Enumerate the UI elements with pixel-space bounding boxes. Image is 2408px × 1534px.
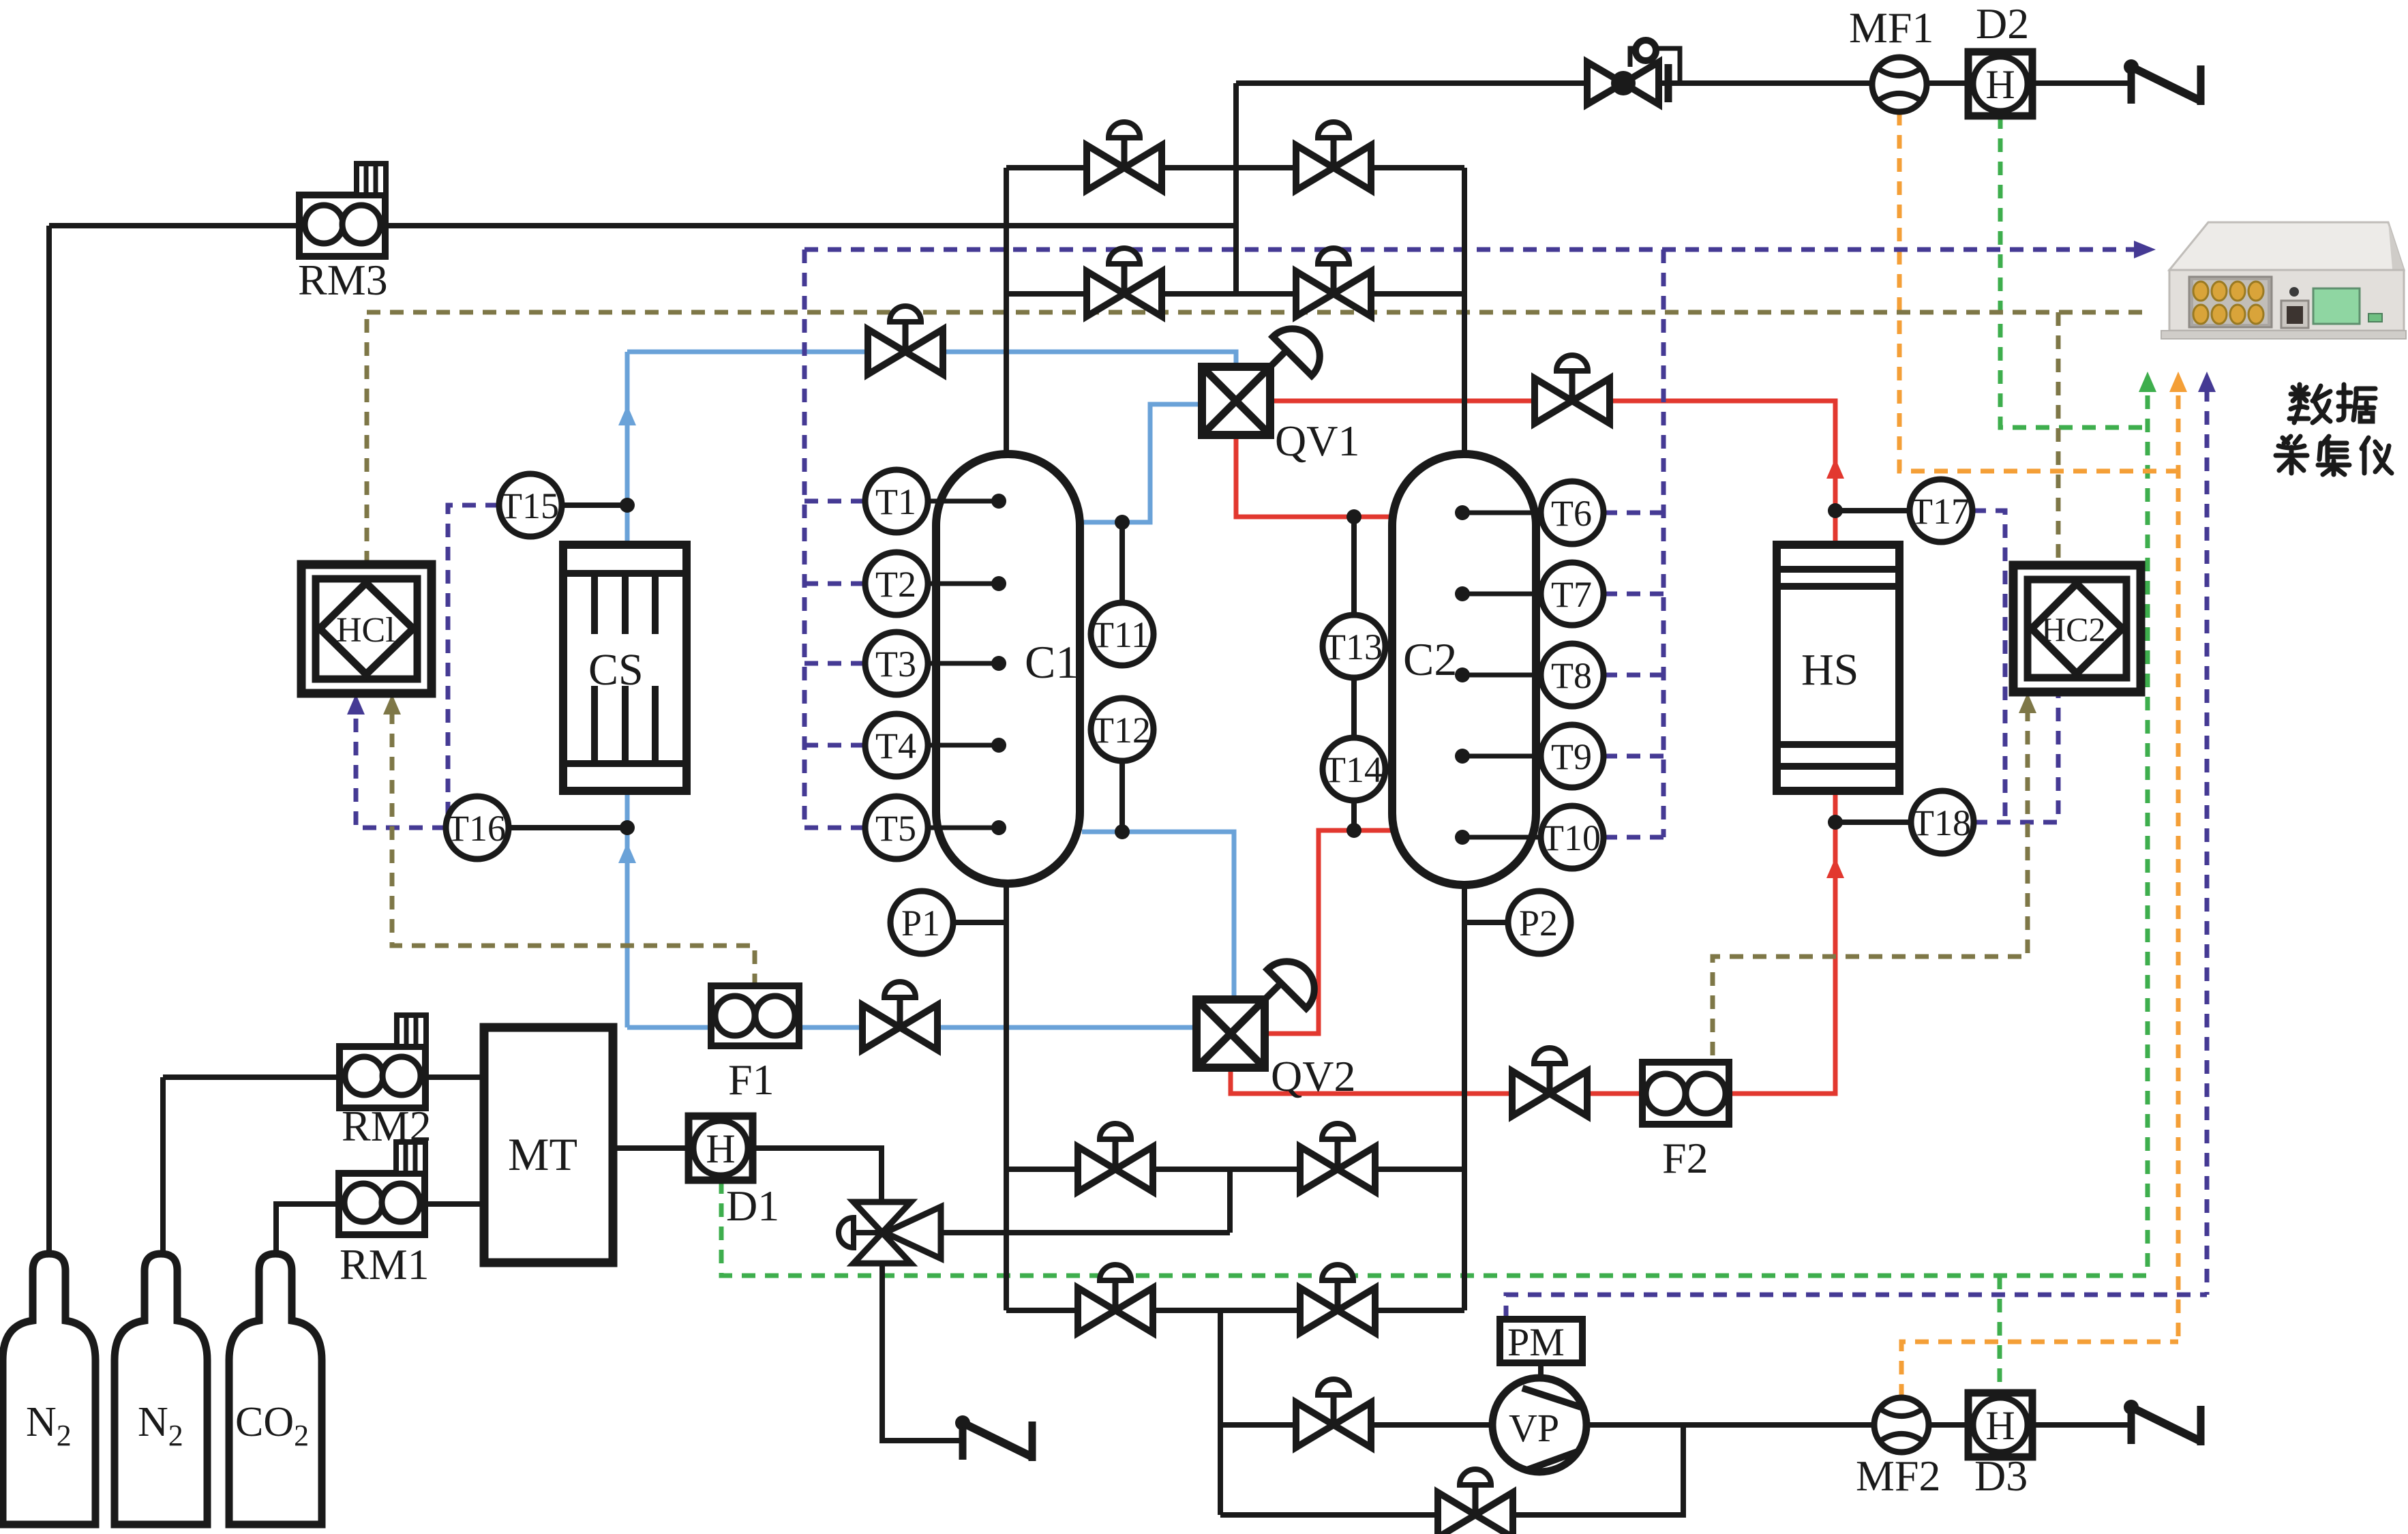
- wire header down-comer: [1233, 83, 1239, 294]
- wire indigo stub T8: [1604, 673, 1664, 678]
- wire red QV1 right to HS top: [1270, 401, 1835, 545]
- node T14 junction: [1346, 823, 1361, 838]
- svg-text:MF2: MF2: [1856, 1452, 1941, 1500]
- valve on blue F1 line: [862, 982, 937, 1050]
- arrow red up to HS bottom: [1826, 858, 1844, 878]
- wire olive F2 to HC2: [1713, 708, 2028, 1062]
- thermocouple T9: [1541, 725, 1604, 787]
- node T17 junction: [1828, 503, 1843, 518]
- svg-text:HC2: HC2: [2041, 610, 2105, 648]
- svg-text:T11: T11: [1092, 614, 1149, 655]
- node T18 junction: [1828, 815, 1843, 830]
- cooling unit CS: [563, 545, 687, 791]
- flow controller F2: [1642, 1062, 1729, 1182]
- wire T13-T14 link: [1351, 678, 1357, 738]
- wire red QV1 bottom to C2 top: [1236, 435, 1392, 517]
- wire PM to VP: [1538, 1363, 1544, 1378]
- svg-text:T14: T14: [1323, 749, 1383, 790]
- wire blue C1 top to QV1 left: [1082, 404, 1202, 522]
- thermocouple T18: [1911, 791, 1974, 854]
- node C2 tap 4: [1455, 749, 1470, 764]
- wire three-way valve to vent: [882, 1233, 963, 1441]
- wire indigo stub T4: [804, 743, 865, 748]
- wire olive drop to HC2 top: [2056, 312, 2061, 565]
- node T13 junction: [1346, 509, 1361, 524]
- svg-text:PM: PM: [1507, 1320, 1565, 1364]
- svg-text:T3: T3: [875, 644, 916, 685]
- wire bypass jog: [1227, 1169, 1233, 1233]
- wire indigo thermocouple bus to data logger: [804, 247, 2145, 252]
- wire T14 link: [1351, 800, 1357, 830]
- wire blue vertical through CS: [625, 352, 630, 1027]
- arrow orange up to data logger: [2169, 372, 2187, 392]
- wire P1 stub: [953, 920, 1006, 925]
- svg-text:C2: C2: [1403, 633, 1457, 685]
- wire indigo stub T1: [804, 499, 865, 504]
- thermocouple T6: [1541, 481, 1604, 544]
- wire lower valve row 1: [1006, 1167, 1464, 1172]
- wire indigo stub T2: [804, 582, 865, 586]
- wire T1 tap: [928, 499, 999, 504]
- arrow olive up into HC2: [2019, 693, 2036, 713]
- arrow indigo right end of bus: [2134, 241, 2156, 258]
- wire VP suction: [1220, 1422, 1492, 1428]
- svg-text:VP: VP: [1509, 1406, 1559, 1450]
- thermocouple T14: [1323, 738, 1385, 800]
- svg-text:T5: T5: [875, 808, 916, 849]
- svg-text:HS: HS: [1801, 645, 1858, 695]
- wire red QV2 bottom through F2 to HS bottom: [1231, 791, 1835, 1094]
- svg-text:T2: T2: [875, 564, 916, 605]
- node T16 junction: [620, 820, 635, 835]
- valve VP bypass: [1438, 1469, 1513, 1534]
- thermocouple T15: [499, 474, 562, 537]
- rotameter RM2: [340, 1015, 426, 1108]
- wire indigo stub T5: [804, 826, 865, 830]
- svg-text:D2: D2: [1976, 0, 2029, 48]
- wire green D2 branch: [2000, 115, 2148, 427]
- svg-text:RM1: RM1: [340, 1240, 430, 1289]
- thermocouple T12: [1091, 698, 1154, 761]
- pressure meter PM: [1500, 1319, 1582, 1364]
- node C1 tap 5: [991, 820, 1006, 835]
- valve lower row1 right: [1300, 1124, 1375, 1192]
- arrow olive up into HC1: [383, 694, 401, 715]
- svg-text:T17: T17: [1910, 491, 1970, 532]
- node C2 tap 3: [1455, 667, 1470, 682]
- wire indigo T15/T16 to HC1: [356, 505, 499, 828]
- mass flow meter MF2: [1874, 1398, 1929, 1452]
- wire T18 stub: [1835, 819, 1911, 825]
- wire blue F1 feed line: [627, 1025, 1197, 1030]
- wire T17 stub: [1835, 508, 1910, 513]
- wire T13 link: [1351, 517, 1357, 615]
- thermocouple T1: [865, 470, 928, 532]
- gas cylinder N2 no.1: [3, 1254, 95, 1524]
- svg-text:QV1: QV1: [1275, 417, 1359, 465]
- svg-text:C1: C1: [1025, 636, 1079, 688]
- wire C1 bottom leg: [1004, 884, 1009, 1310]
- sensor taps inside C1: [928, 501, 1541, 837]
- column C1: [936, 454, 1080, 884]
- svg-text:RM3: RM3: [298, 256, 388, 304]
- mixing tank MT: [484, 1027, 613, 1263]
- wire indigo T17/T18 to HC2: [1972, 511, 2058, 822]
- wire T2 tap: [928, 582, 999, 586]
- wire red QV2 right to C2 bottom: [1264, 830, 1392, 1034]
- svg-text:MF1: MF1: [1849, 3, 1934, 52]
- svg-text:T16: T16: [447, 808, 506, 849]
- vacuum pump VP: [1492, 1378, 1586, 1472]
- node C1 tap 1: [991, 494, 1006, 509]
- heating controller HC1: [301, 565, 432, 693]
- svg-text:T1: T1: [875, 481, 916, 522]
- node T15 junction: [620, 498, 635, 513]
- rotameter RM1: [339, 1142, 425, 1235]
- column C2: [1392, 454, 1536, 885]
- wire orange MF1 branch: [1899, 112, 2178, 471]
- wire T8 tap: [1462, 673, 1541, 678]
- arrow green up to data logger: [2139, 372, 2156, 392]
- heating controller HC2: [2013, 565, 2141, 692]
- wire N2 cylinder 1 riser: [46, 226, 52, 1254]
- valve VP suction: [1296, 1379, 1371, 1447]
- valve on blue CS line: [868, 306, 943, 374]
- wire top vent header: [1236, 80, 2131, 86]
- valve on red F2 line: [1512, 1048, 1587, 1116]
- svg-text:D3: D3: [1974, 1452, 2028, 1500]
- wire olive F1 to HC1: [392, 710, 755, 986]
- valve upper row1 left: [1087, 122, 1162, 190]
- wire indigo stub T3: [804, 661, 865, 666]
- node C1 tap 4: [991, 738, 1006, 753]
- arrow indigo up into HC1: [347, 694, 365, 715]
- thermocouple T16: [446, 796, 509, 859]
- wire indigo T6-T10 riser: [1661, 250, 1666, 837]
- thermocouple T7: [1541, 562, 1604, 625]
- svg-text:T8: T8: [1551, 655, 1592, 696]
- svg-text:CS: CS: [588, 645, 644, 695]
- svg-text:T7: T7: [1551, 574, 1592, 615]
- wire blue C1 bottom to QV2 top: [1082, 832, 1234, 999]
- thermocouple T11: [1091, 603, 1154, 665]
- three-way solenoid valve QV2: [1197, 961, 1314, 1068]
- svg-text:T12: T12: [1092, 710, 1151, 751]
- vent to atmosphere bottom right: [2124, 1400, 2201, 1445]
- wire MT to D1 to three-way valve: [613, 1148, 882, 1233]
- thermocouple T17: [1910, 479, 1972, 542]
- wire T9 tap: [1462, 754, 1541, 759]
- heater D1: [689, 1116, 753, 1180]
- wire blue CS to QV1 top: [627, 352, 1236, 367]
- wire RM3 nitrogen line: [49, 223, 1236, 228]
- valve on red HS line: [1535, 355, 1610, 423]
- wire C2 top feed: [1462, 168, 1467, 454]
- svg-text:T9: T9: [1551, 736, 1592, 777]
- wire indigo PM to data logger: [1506, 388, 2207, 1319]
- wire N2 cylinder 2 riser: [160, 1077, 166, 1254]
- wire VP discharge to vent: [1586, 1422, 2131, 1428]
- gas cylinder N2 no.2: [115, 1254, 207, 1524]
- thermocouple T13: [1323, 615, 1385, 678]
- wire C2 bottom leg: [1462, 885, 1467, 1310]
- wire T10 tap: [1462, 835, 1541, 840]
- valve upper row2 left: [1087, 248, 1162, 316]
- pressure gauge P2: [1508, 891, 1571, 954]
- arrow red up to QV1 line: [1826, 458, 1844, 479]
- wire T16 stub: [509, 825, 627, 830]
- valve upper row2 right: [1296, 248, 1371, 316]
- svg-text:T15: T15: [500, 485, 559, 526]
- gas cylinder CO2: [229, 1254, 322, 1524]
- wire indigo stub T6: [1604, 511, 1664, 515]
- wire indigo T1-T5 riser: [802, 250, 807, 828]
- node T11 junction: [1115, 515, 1130, 530]
- wire indigo stub T10: [1604, 835, 1664, 840]
- node C2 tap 5: [1455, 830, 1470, 845]
- back-pressure regulator valve: [1587, 40, 1680, 104]
- wire T5 tap: [928, 826, 999, 830]
- mass flow meter MF1: [1872, 57, 1927, 112]
- node C1 tap 2: [991, 576, 1006, 591]
- label 数据 (data) hand-drawn strokes: [2289, 385, 2375, 423]
- wire RM2 to MT: [163, 1074, 484, 1080]
- wire orange MF2 branch: [1901, 1342, 2178, 1398]
- wire green riser to data logger: [2146, 395, 2150, 1276]
- thermocouple T2: [865, 552, 928, 615]
- heating unit HS: [1777, 545, 1899, 791]
- label 采集仪 (acquisition unit) hand-drawn strokes: [2276, 436, 2392, 475]
- svg-text:T18: T18: [1912, 802, 1971, 843]
- wire VP bypass: [1220, 1425, 1683, 1515]
- vent to atmosphere top right: [2124, 59, 2201, 105]
- wire three-way valve to bypass: [882, 1230, 1230, 1235]
- flow controller F1: [711, 986, 799, 1104]
- wire T12 link: [1119, 761, 1125, 832]
- rotameter RM3: [299, 164, 386, 256]
- wire T15 stub: [562, 502, 627, 508]
- node C1 tap 3: [991, 656, 1006, 671]
- svg-text:T10: T10: [1541, 817, 1601, 858]
- wire P2 stub: [1464, 920, 1508, 925]
- wire vacuum branch drop: [1218, 1310, 1223, 1515]
- svg-text:T6: T6: [1551, 493, 1592, 534]
- wire T7 tap: [1462, 592, 1541, 597]
- wire T4 tap: [928, 743, 999, 748]
- valve lower row1 left: [1078, 1124, 1153, 1192]
- wire T3 tap: [928, 661, 999, 666]
- node C2 tap 2: [1455, 586, 1470, 601]
- svg-text:HCl: HCl: [336, 611, 395, 650]
- wire lower valve row 2: [1006, 1308, 1464, 1313]
- pressure gauge P1: [890, 891, 953, 954]
- wire green branch to D3: [1998, 1276, 2002, 1393]
- arrow blue up below CS: [618, 843, 636, 863]
- heater D3: [1968, 1393, 2032, 1457]
- svg-text:QV2: QV2: [1271, 1052, 1355, 1100]
- wire green D1 to data logger: [721, 1180, 2148, 1276]
- thermocouple T3: [865, 632, 928, 695]
- svg-text:T4: T4: [875, 725, 916, 766]
- thermocouple T8: [1541, 644, 1604, 706]
- arrow indigo up to data logger: [2198, 372, 2216, 392]
- svg-text:F2: F2: [1662, 1134, 1709, 1182]
- valve upper row1 right: [1296, 122, 1371, 190]
- wire C1 top feed: [1004, 168, 1009, 454]
- svg-text:T13: T13: [1323, 627, 1383, 667]
- svg-text:MT: MT: [508, 1128, 577, 1180]
- valve lower row2 right: [1300, 1265, 1375, 1333]
- wire CO2 riser and RM1 to MT: [276, 1204, 484, 1254]
- svg-text:F1: F1: [728, 1055, 774, 1104]
- three-way solenoid valve QV1: [1202, 329, 1320, 435]
- thermocouple T4: [865, 714, 928, 777]
- wire T6 tap: [1462, 511, 1541, 515]
- sensor tag labels: [447, 481, 1971, 944]
- wire orange riser to data logger: [2176, 395, 2181, 1342]
- wire indigo stub T9: [1604, 754, 1664, 759]
- wire olive HC1 top long line: [367, 312, 2151, 565]
- node T12 junction: [1115, 824, 1130, 839]
- node C2 tap 1: [1455, 505, 1470, 520]
- arrow blue up above CS: [618, 405, 636, 425]
- wire indigo stub T7: [1604, 592, 1664, 597]
- wire upper valve row 2: [1006, 291, 1464, 297]
- wire T11 link: [1119, 522, 1125, 603]
- thermocouple T5: [865, 796, 928, 859]
- valve lower row2 left: [1078, 1265, 1153, 1333]
- svg-text:P2: P2: [1519, 903, 1558, 944]
- heater D2: [1968, 52, 2032, 116]
- three-way valve on MT line: [839, 1202, 941, 1263]
- svg-text:P1: P1: [901, 903, 940, 944]
- vent to atmosphere bottom left: [955, 1415, 1032, 1461]
- thermocouple T10: [1541, 806, 1604, 869]
- wire upper valve row 1: [1006, 165, 1464, 170]
- svg-text:D1: D1: [726, 1182, 779, 1230]
